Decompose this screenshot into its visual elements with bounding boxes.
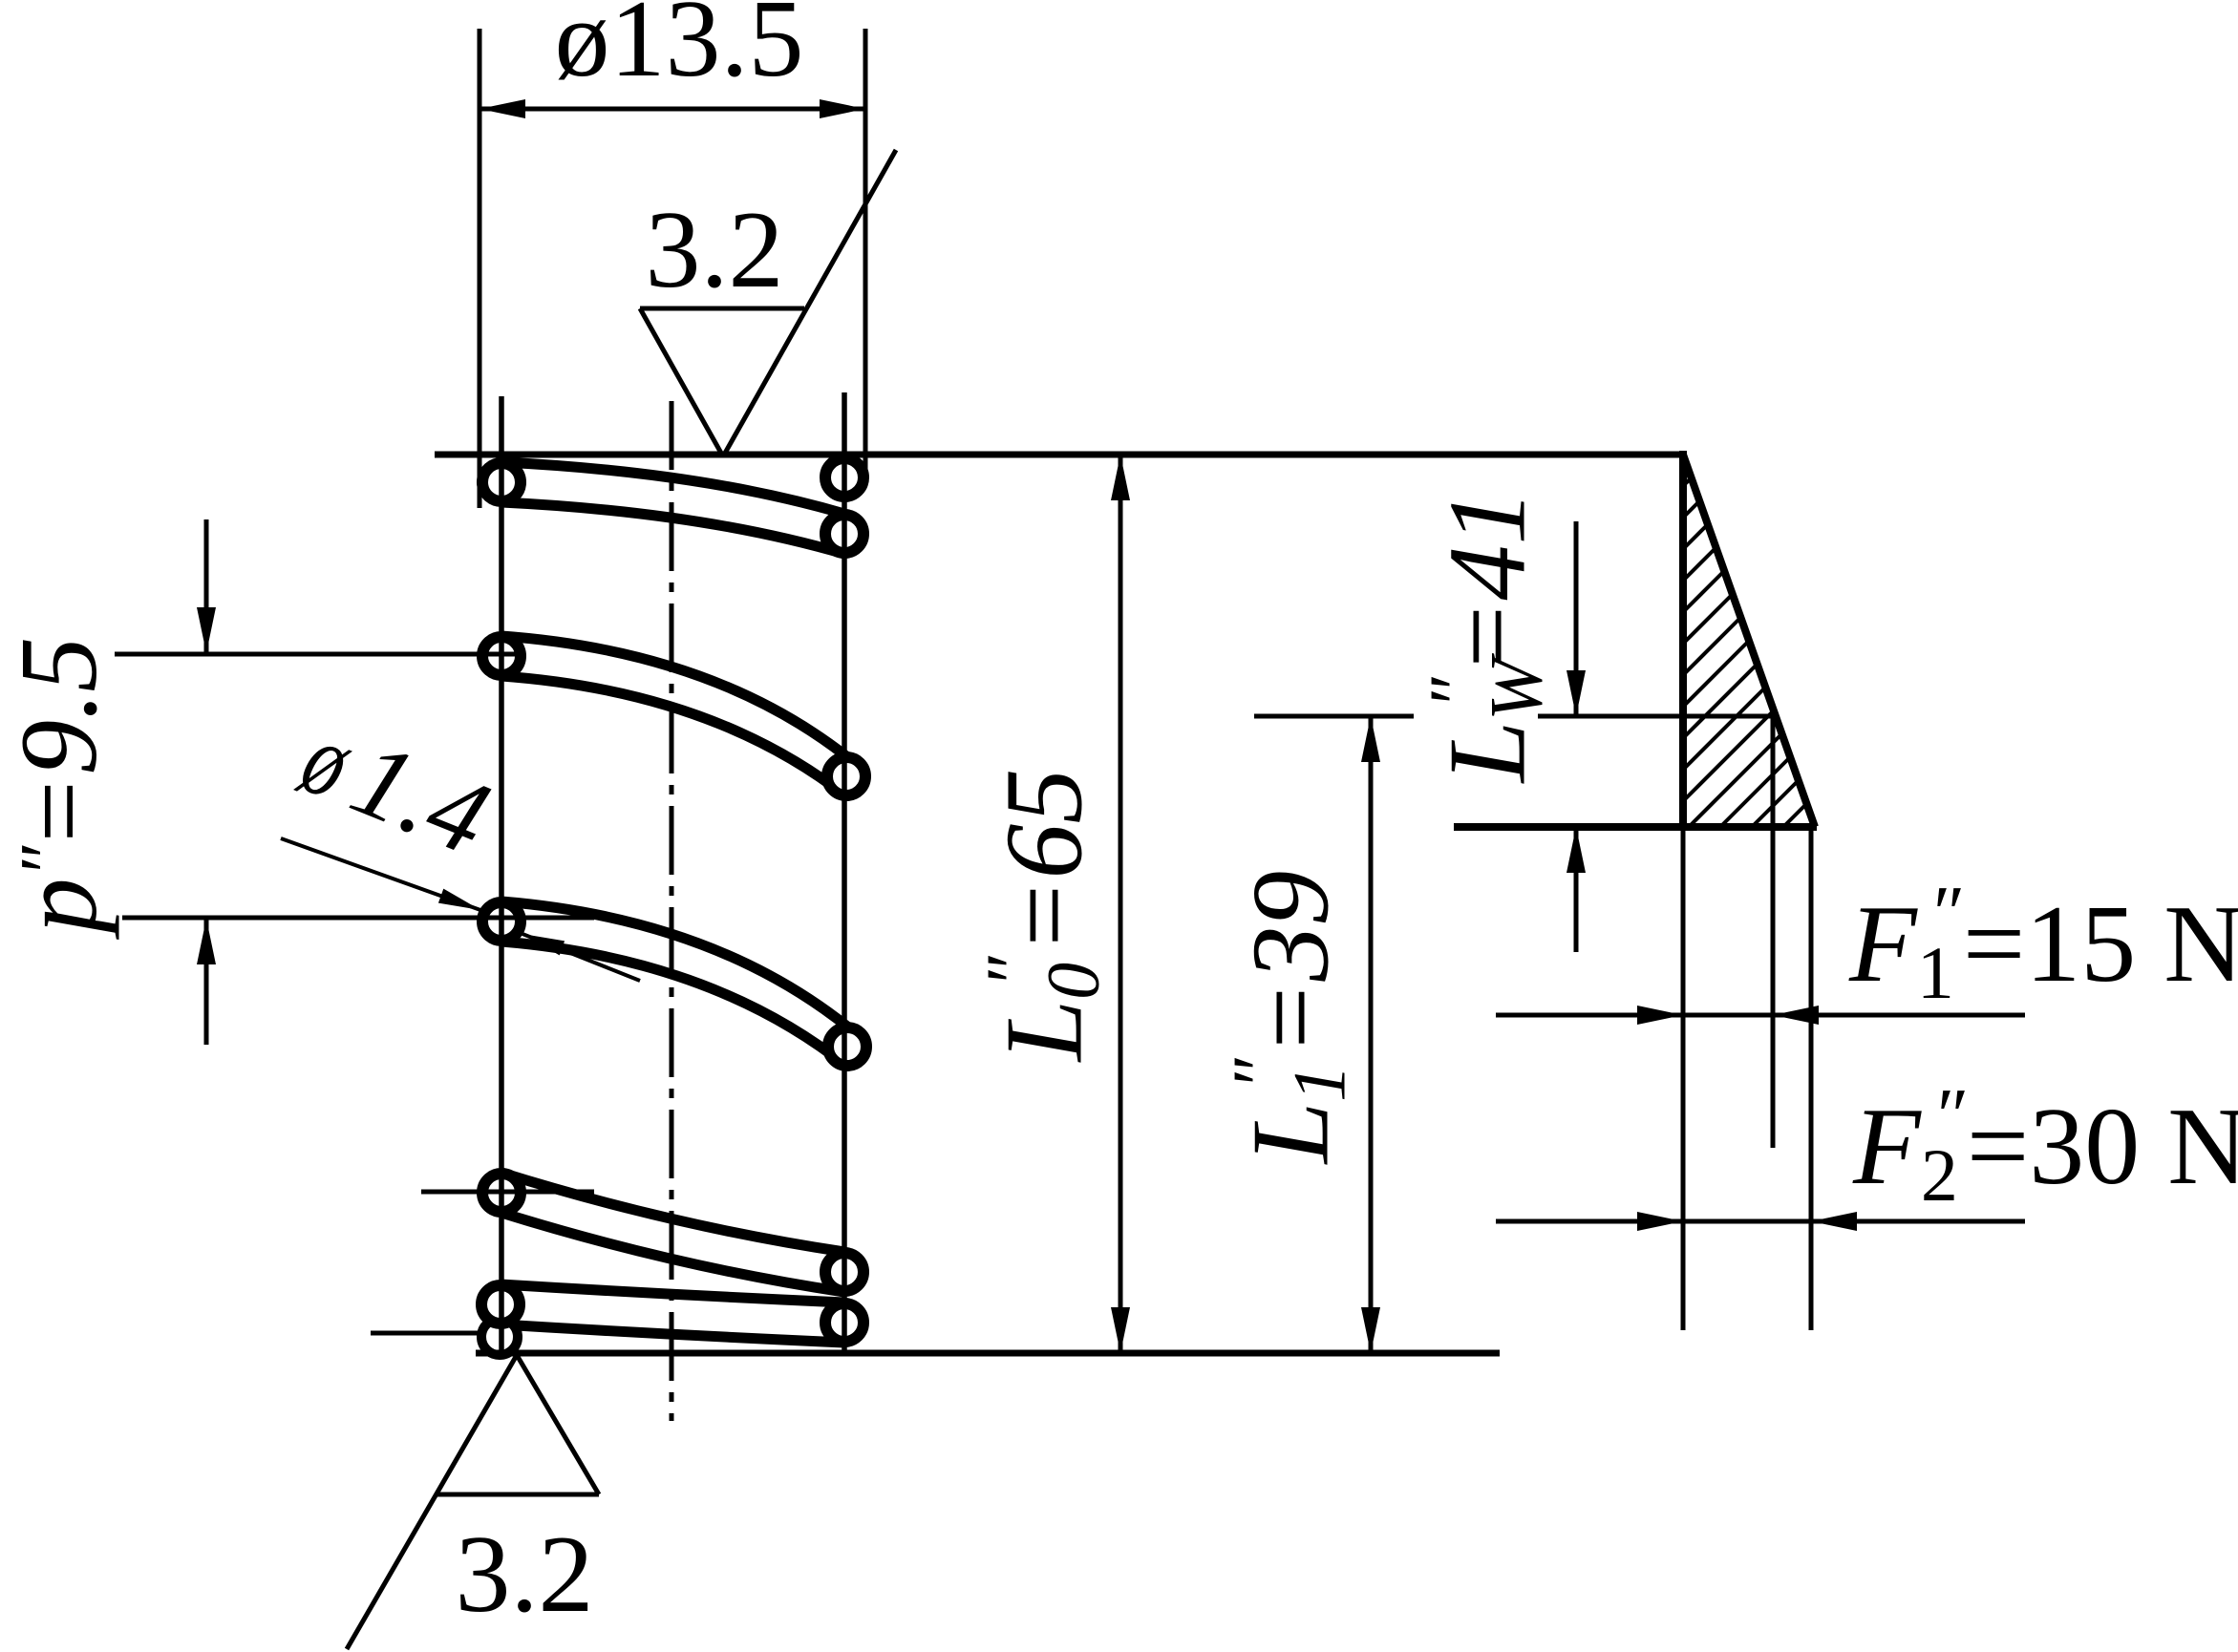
- load diagram F2 level line: [1454, 823, 1817, 831]
- F1 dimension line: [1496, 1013, 2025, 1018]
- pitch p upper arrowhead: [197, 607, 216, 653]
- wire section circle R1 (wire end, top right): [825, 458, 863, 497]
- pitch p dimension line lower shaft: [204, 918, 209, 1045]
- load diagram hatching: [1683, 477, 1806, 827]
- roughness value 3.2 (top): [646, 195, 784, 306]
- length label LW''=41: [1432, 490, 1544, 783]
- L0 bottom arrowhead: [1111, 1307, 1130, 1353]
- dia 13.5 right arrowhead: [820, 99, 865, 118]
- wire section circle R4: [828, 1027, 866, 1066]
- bottom seat face line: [476, 1350, 1500, 1357]
- wire section circle L4: [482, 1174, 521, 1212]
- F2 right arrowhead: [1811, 1212, 1857, 1231]
- load diagram force axis (left edge of triangle): [1679, 451, 1687, 827]
- spring coil band 1 (top closed coil, L1 to R2): [501, 462, 844, 554]
- pitch label p''=9.5: [0, 637, 115, 934]
- spring left outline line: [499, 396, 504, 1353]
- L1 level line right segment: [1538, 714, 1775, 719]
- F1 intersection extension line: [1771, 716, 1776, 1148]
- spring center line (dash-dot): [670, 401, 674, 1421]
- pitch p dimension line upper shaft: [204, 519, 209, 654]
- wire dia 1.4 leader arrowhead A: [438, 889, 480, 910]
- L1 dimension line: [1369, 716, 1374, 1353]
- wire dia label 1.4: [288, 702, 503, 875]
- wire dia 1.4 leader line upper segment: [281, 838, 480, 910]
- wire section circle L3: [482, 902, 521, 941]
- load diagram hypotenuse: [1683, 455, 1815, 827]
- spring coil band 5 (bottom closed coil, L5 to R6): [501, 1284, 844, 1343]
- L1 bottom arrowhead: [1361, 1307, 1380, 1353]
- force axis extension below diagram: [1681, 827, 1686, 1330]
- spring coil band 4 (active coil, L4 to R5): [501, 1173, 844, 1292]
- wire section circle R3: [827, 757, 865, 795]
- F2 left arrowhead: [1637, 1212, 1683, 1231]
- wire section circle L1: [482, 463, 521, 501]
- dia 13.5 right extension line: [863, 29, 868, 482]
- spring coil band 3 (active coil, L3 to R4): [501, 901, 847, 1067]
- LW dimension upper shaft: [1574, 521, 1579, 716]
- wire section circle R5: [825, 1253, 863, 1291]
- LW dimension lower shaft: [1574, 827, 1579, 952]
- wire section circle L2: [482, 637, 521, 675]
- L1 top arrowhead: [1361, 716, 1380, 762]
- LW lower arrowhead: [1567, 827, 1586, 873]
- F1 left arrowhead: [1637, 1006, 1683, 1025]
- wire section circle R6: [825, 1303, 863, 1342]
- roughness value 3.2 (bottom): [456, 1519, 594, 1630]
- L0 dimension line: [1119, 455, 1123, 1353]
- pitch p top extension line: [115, 652, 519, 657]
- dia 13.5 left arrowhead: [480, 99, 525, 118]
- L0 top arrowhead: [1111, 455, 1130, 500]
- wire section circle R2: [825, 515, 863, 553]
- pitch p lower arrowhead: [197, 919, 216, 964]
- top seat face line: [435, 452, 1687, 458]
- top surface finish symbol (3.2): [640, 150, 896, 456]
- spring coil band 2 (active coil, L2 to R3): [501, 636, 846, 796]
- dia 13.5 dimension line: [480, 107, 865, 112]
- L4 coil center mark line: [421, 1190, 594, 1195]
- wire dia 1.4 leader line lower segment: [522, 934, 640, 981]
- F1 right arrowhead: [1773, 1006, 1819, 1025]
- wire section circle L6 (bottom end, left): [481, 1319, 518, 1355]
- force label F1''=15 N: [1849, 888, 2238, 1000]
- LW upper arrowhead: [1567, 670, 1586, 716]
- spring right outline line: [842, 392, 847, 1353]
- L1 level line left segment: [1254, 714, 1414, 719]
- pitch p bottom extension line: [122, 916, 594, 921]
- force label F2''=30 N: [1853, 1091, 2238, 1202]
- dimension text dia 13.5: [555, 0, 804, 95]
- wire dia 1.4 leader arrowhead B: [522, 934, 565, 955]
- bottom coil contact line: [371, 1331, 482, 1336]
- bottom surface finish symbol (3.2): [347, 1355, 599, 1649]
- length label L1''=39: [1235, 871, 1347, 1164]
- F2 corner extension line: [1809, 827, 1814, 1330]
- dia 13.5 left extension line: [478, 29, 482, 508]
- wire section circle L5: [481, 1285, 520, 1324]
- length label L0''=65: [989, 769, 1100, 1062]
- F2 dimension line: [1496, 1219, 2025, 1224]
